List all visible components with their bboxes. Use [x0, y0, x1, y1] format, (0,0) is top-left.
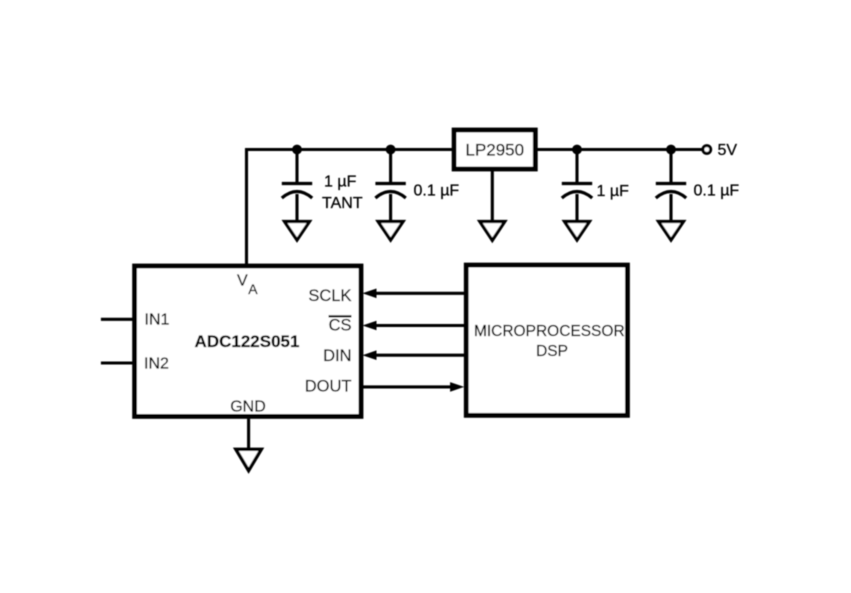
wire IN2 stub: [101, 361, 137, 364]
svg-text:0.1 µF: 0.1 µF: [414, 183, 460, 200]
capacitor C2 0.1uF: [375, 150, 405, 222]
svg-text:IN1: IN1: [145, 312, 170, 329]
svg-text:A: A: [248, 281, 258, 297]
svg-text:1 µF: 1 µF: [324, 173, 357, 190]
value label C3: [597, 183, 630, 200]
node junction dot 2: [386, 145, 396, 155]
wire SCLK with arrow into ADC: [362, 289, 464, 299]
value label C4: [694, 183, 740, 200]
svg-text:TANT: TANT: [322, 195, 363, 212]
ground below C4: [659, 222, 684, 241]
ground below ADC GND: [236, 449, 261, 470]
wire top rail right segment: [538, 148, 703, 151]
svg-text:SCLK: SCLK: [308, 287, 351, 305]
svg-text:MICROPROCESSOR: MICROPROCESSOR: [474, 323, 625, 340]
node junction dot 4: [666, 145, 676, 155]
svg-text:1 µF: 1 µF: [597, 183, 630, 200]
wire ADC ground stem: [247, 419, 250, 450]
regulator U1 LP2950: [454, 130, 535, 169]
wire LP2950 ground stem: [491, 171, 494, 222]
svg-text:CS: CS: [329, 317, 352, 335]
svg-text:ADC122S051: ADC122S051: [195, 332, 300, 351]
svg-text:5V: 5V: [718, 142, 738, 159]
svg-text:DSP: DSP: [536, 343, 568, 360]
wire DIN with arrow into ADC: [362, 350, 464, 360]
svg-text:DIN: DIN: [323, 347, 351, 365]
svg-text:0.1 µF: 0.1 µF: [694, 183, 740, 200]
capacitor C4 0.1uF: [656, 150, 686, 222]
node junction dot 3: [572, 145, 582, 155]
wire VA vertical drop: [245, 148, 248, 266]
value label C1: [322, 173, 363, 212]
wire IN1 stub: [101, 318, 137, 321]
wire DOUT with arrow into microprocessor: [363, 382, 465, 392]
ground below C3: [565, 222, 590, 241]
ground below C2: [378, 222, 403, 241]
ADC U2 ADC122S051 box: [135, 266, 361, 416]
svg-text:LP2950: LP2950: [465, 140, 524, 159]
capacitor C3 1uF: [562, 150, 592, 222]
ground below LP2950: [480, 222, 505, 241]
svg-text:DOUT: DOUT: [305, 378, 352, 396]
capacitor C1 1uF TANT: [282, 150, 312, 222]
node 5V terminal: [703, 142, 737, 159]
value label C2: [414, 183, 460, 200]
svg-text:IN2: IN2: [144, 355, 169, 372]
svg-text:GND: GND: [230, 399, 266, 416]
ground below C1: [285, 222, 310, 241]
wire top rail left segment: [245, 148, 452, 151]
node junction dot 1: [292, 145, 302, 155]
wire CS with arrow into ADC: [362, 321, 464, 331]
svg-text:V: V: [237, 273, 248, 290]
microprocessor box: [466, 265, 627, 415]
